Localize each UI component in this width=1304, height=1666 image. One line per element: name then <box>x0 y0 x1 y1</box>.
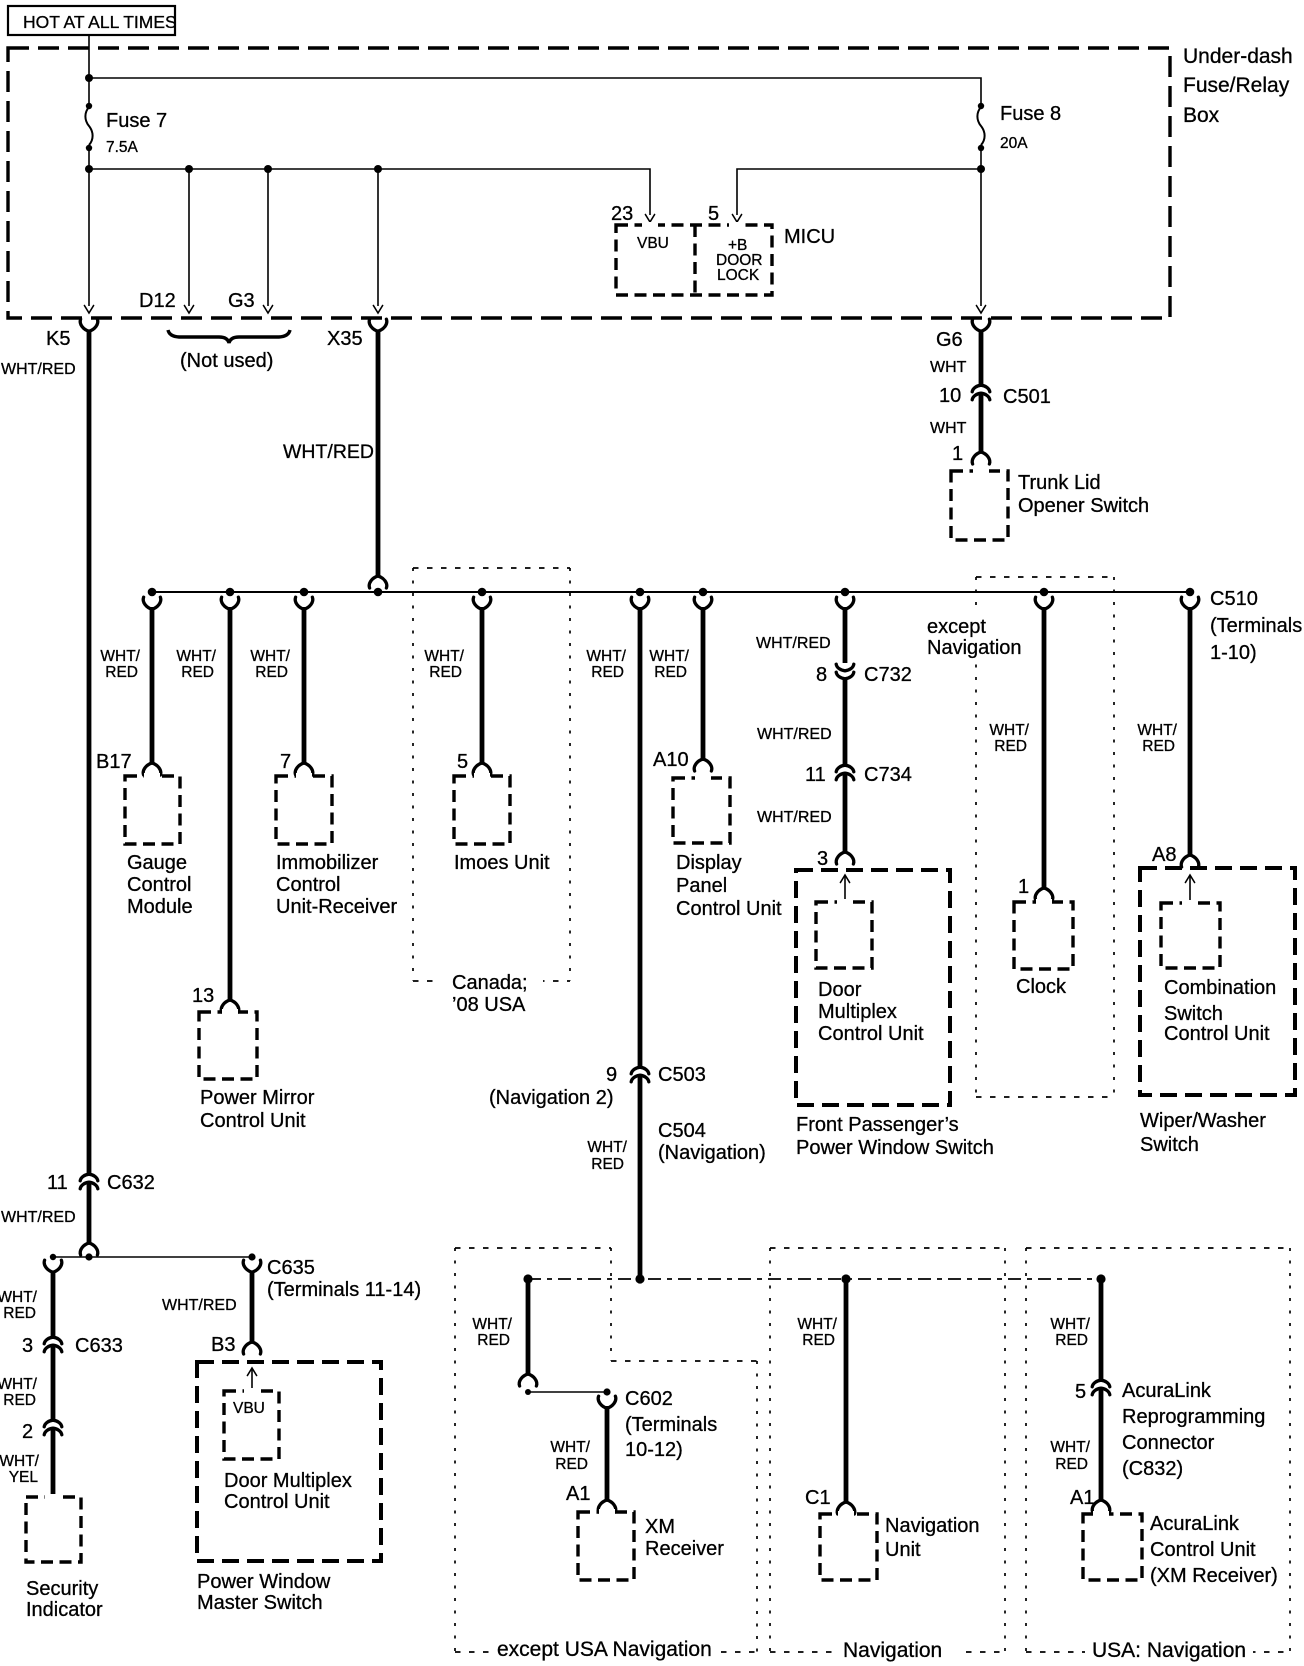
pin 5 arrow into MICU <box>732 215 741 223</box>
svg-text:20A: 20A <box>1000 135 1028 152</box>
svg-text:Under-dash: Under-dash <box>1183 45 1293 68</box>
svg-text:LOCK: LOCK <box>717 267 760 284</box>
connector A1 fork XM <box>598 1500 616 1512</box>
label Door Multiplex Control Unit master <box>224 1470 352 1513</box>
label WHT/RED wiper <box>1137 722 1177 755</box>
connector trunk switch pin fork <box>972 452 990 464</box>
svg-text:Fuse/Relay: Fuse/Relay <box>1183 74 1290 97</box>
node bus junction 304 <box>300 588 309 597</box>
svg-text:WHT/RED: WHT/RED <box>1 1209 76 1226</box>
svg-text:Combination: Combination <box>1164 977 1276 999</box>
branch 7 Immobilizer <box>295 597 313 775</box>
label WHT/RED XM <box>550 1439 590 1473</box>
Door Multiplex Control Unit inner box <box>816 902 872 968</box>
svg-text:Navigation: Navigation <box>885 1515 980 1537</box>
svg-text:1-10): 1-10) <box>1210 642 1257 664</box>
label 3 C633 <box>22 1335 123 1357</box>
svg-text:(Navigation): (Navigation) <box>658 1142 766 1164</box>
label 9 C503 <box>606 1064 706 1086</box>
node junction left 53 <box>50 1254 56 1260</box>
svg-text:WHT/: WHT/ <box>100 648 140 665</box>
pin VBU inner box <box>224 1391 279 1459</box>
svg-text:A10: A10 <box>653 749 689 771</box>
svg-text:23: 23 <box>611 203 633 225</box>
except USA Navigation option box <box>455 1248 757 1652</box>
label AcuraLink Control Unit (XM Receiver) <box>1150 1513 1278 1587</box>
svg-text:WHT/RED: WHT/RED <box>757 726 832 743</box>
svg-text:C732: C732 <box>864 664 912 686</box>
svg-text:Receiver: Receiver <box>645 1538 724 1560</box>
svg-text:Imoes Unit: Imoes Unit <box>454 852 550 874</box>
svg-text:C734: C734 <box>864 764 912 786</box>
svg-text:X35: X35 <box>327 328 363 350</box>
svg-text:C1: C1 <box>805 1487 831 1509</box>
branch 5 Imoes Unit <box>473 597 491 775</box>
connector C501 <box>972 385 990 400</box>
svg-text:C635: C635 <box>267 1257 315 1279</box>
wire link 1392 <box>528 1391 607 1393</box>
Power Window Master Switch box <box>197 1362 381 1561</box>
branch B3 power window master fork <box>243 1260 261 1272</box>
svg-text:5: 5 <box>708 203 719 225</box>
svg-text:Power Window Switch: Power Window Switch <box>796 1137 994 1159</box>
node junction 89 <box>85 1253 92 1260</box>
label WHT/RED acuralink lower <box>1050 1439 1090 1473</box>
svg-text:11: 11 <box>47 1172 68 1194</box>
node bus junction 845 <box>841 588 850 597</box>
svg-text:WHT/: WHT/ <box>1050 1316 1090 1333</box>
wire navigation branch <box>844 1279 849 1503</box>
svg-text:WHT/: WHT/ <box>0 1376 38 1393</box>
label Fuse 8 20A <box>1000 103 1061 152</box>
connector C632 <box>80 1174 98 1189</box>
svg-text:A1: A1 <box>566 1483 590 1505</box>
wire Fuse 8 output rail <box>737 148 981 306</box>
svg-text:RED: RED <box>555 1456 588 1473</box>
connector C1 fork <box>837 1502 855 1514</box>
wire X35 to bus <box>376 331 381 577</box>
svg-text:Wiper/Washer: Wiper/Washer <box>1140 1110 1266 1132</box>
svg-text:WHT/RED: WHT/RED <box>283 441 374 463</box>
Imoes Unit box <box>454 776 510 844</box>
branch front passenger window switch wire <box>836 597 854 663</box>
svg-text:AcuraLink: AcuraLink <box>1150 1513 1240 1535</box>
svg-text:USA: Navigation: USA: Navigation <box>1092 1639 1246 1662</box>
node bus junction 640 <box>636 588 645 597</box>
svg-text:Clock: Clock <box>1016 976 1067 998</box>
svg-text:5: 5 <box>457 751 468 773</box>
wire X35 drop arrow <box>373 169 382 313</box>
wire K5 drop arrow <box>84 169 93 313</box>
svg-text:Master Switch: Master Switch <box>197 1592 323 1614</box>
label WHT/RED 528 <box>472 1316 512 1349</box>
Combination Switch Control Unit inner box <box>1161 903 1220 968</box>
Immobilizer Control Unit-Receiver box <box>276 776 332 844</box>
svg-text:G6: G6 <box>936 329 963 351</box>
svg-text:10-12): 10-12) <box>625 1439 683 1461</box>
node bus junction C510 <box>1186 588 1195 597</box>
label C504 (Navigation) <box>658 1120 766 1164</box>
svg-text:RED: RED <box>3 1392 36 1409</box>
node bus junction 230 <box>226 588 235 597</box>
label Trunk Lid Opener Switch <box>1018 472 1149 517</box>
svg-text:(Terminals: (Terminals <box>1210 615 1302 637</box>
svg-text:Control Unit: Control Unit <box>224 1491 330 1513</box>
svg-text:Navigation: Navigation <box>843 1639 942 1662</box>
wire top feed rail to Fuse 8 <box>89 78 981 104</box>
svg-text:Fuse 8: Fuse 8 <box>1000 103 1061 125</box>
node junction 528 <box>523 1274 532 1283</box>
label Gauge Control Module <box>127 852 193 918</box>
connector C832 pin 5 <box>1092 1380 1110 1395</box>
svg-text:WHT/: WHT/ <box>472 1316 512 1333</box>
Navigation option box <box>770 1248 1005 1652</box>
svg-text:Switch: Switch <box>1140 1134 1199 1156</box>
svg-text:Reprogramming: Reprogramming <box>1122 1406 1265 1428</box>
fuse F7 <box>85 103 92 151</box>
label WHT/RED acuralink upper <box>1050 1316 1090 1349</box>
node supply junction <box>85 74 93 82</box>
label Navigation Unit <box>885 1515 980 1561</box>
svg-text:RED: RED <box>477 1332 510 1349</box>
label C602 (Terminals 10-12) <box>625 1388 717 1461</box>
svg-text:G3: G3 <box>228 290 255 312</box>
label Combination Switch Control Unit <box>1164 977 1276 1045</box>
svg-text:8: 8 <box>816 664 827 686</box>
node junction K5 feed <box>85 165 93 173</box>
svg-text:except: except <box>927 616 986 638</box>
wire acuralink branch upper <box>1099 1279 1104 1381</box>
svg-text:RED: RED <box>1055 1456 1088 1473</box>
node junction X35 feed <box>374 165 382 173</box>
svg-text:9: 9 <box>606 1064 617 1086</box>
wire pin 2 to security indicator <box>51 1428 56 1499</box>
connector C602 fork <box>598 1396 616 1408</box>
svg-text:WHT/: WHT/ <box>250 648 290 665</box>
connector C734 <box>836 765 854 780</box>
label 11 C632 <box>47 1172 155 1194</box>
svg-text:Control: Control <box>276 874 340 896</box>
svg-text:C504: C504 <box>658 1120 706 1142</box>
svg-text:RED: RED <box>1055 1332 1088 1349</box>
node junction G3 feed <box>264 165 272 173</box>
svg-text:Multiplex: Multiplex <box>818 1001 897 1023</box>
svg-text:RED: RED <box>3 1305 36 1322</box>
svg-text:WHT/RED: WHT/RED <box>757 809 832 826</box>
label Power Mirror Control Unit <box>200 1087 315 1132</box>
label 8 C732 <box>816 664 912 686</box>
Power Mirror Control Unit box <box>199 1012 257 1079</box>
label WHT/RED branch 230 <box>176 648 216 681</box>
wire entry notches <box>45 222 1198 1517</box>
Navigation Unit box <box>820 1514 877 1580</box>
svg-text:D12: D12 <box>139 290 176 312</box>
svg-text:VBU: VBU <box>637 235 669 252</box>
branch security indicator fork <box>44 1260 62 1272</box>
svg-text:Box: Box <box>1183 104 1220 127</box>
branch 13 Power Mirror Control Unit <box>221 597 239 1012</box>
svg-text:RED: RED <box>1142 738 1175 755</box>
svg-text:A1: A1 <box>1070 1487 1094 1509</box>
svg-text:B17: B17 <box>96 751 132 773</box>
svg-text:Connector: Connector <box>1122 1432 1215 1454</box>
svg-text:11: 11 <box>805 764 826 786</box>
wire Fuse 7 output rail <box>89 148 650 215</box>
svg-text:Control Unit: Control Unit <box>818 1023 924 1045</box>
label Navigation option <box>836 1636 961 1664</box>
svg-text:C602: C602 <box>625 1388 673 1410</box>
svg-text:WHT: WHT <box>930 359 967 376</box>
svg-text:WHT/RED: WHT/RED <box>162 1297 237 1314</box>
svg-text:1: 1 <box>1018 876 1029 898</box>
label WHT/RED clock <box>989 722 1029 755</box>
svg-text:RED: RED <box>255 664 288 681</box>
svg-text:WHT/: WHT/ <box>797 1316 837 1333</box>
branch 1 Clock <box>1035 597 1053 900</box>
label WHT/RED branch 703 <box>649 648 689 681</box>
wire G3 drop arrow <box>263 169 272 313</box>
svg-text:Control: Control <box>127 874 191 896</box>
svg-text:(Terminals: (Terminals <box>625 1414 717 1436</box>
svg-text:13: 13 <box>192 985 214 1007</box>
svg-text:Power Window: Power Window <box>197 1571 331 1593</box>
svg-text:WHT/: WHT/ <box>1050 1439 1090 1456</box>
svg-text:Control Unit: Control Unit <box>200 1110 306 1132</box>
connector C503 <box>631 1067 649 1082</box>
svg-text:7: 7 <box>280 751 291 773</box>
node bus junction 1044 <box>1040 588 1049 597</box>
label 11 C734 <box>805 764 912 786</box>
label WHT/RED branch 482 <box>424 648 464 681</box>
node junction 1101 <box>1096 1274 1105 1283</box>
svg-text:Switch: Switch <box>1164 1003 1223 1025</box>
brace Not used for D12 G3 <box>168 330 290 343</box>
svg-text:’08 USA: ’08 USA <box>452 994 526 1016</box>
node junction D12 feed <box>185 165 193 173</box>
Clock box <box>1014 902 1073 969</box>
svg-text:WHT/RED: WHT/RED <box>756 635 831 652</box>
label WHT/RED branch 152 <box>100 648 140 681</box>
label Under-dash Fuse/Relay Box <box>1183 45 1293 127</box>
wire C832 to acuralink unit <box>1099 1388 1104 1501</box>
XM Receiver box <box>578 1512 634 1580</box>
svg-text:Trunk Lid: Trunk Lid <box>1018 472 1101 494</box>
svg-text:(Not used): (Not used) <box>180 350 273 372</box>
svg-text:Module: Module <box>127 896 193 918</box>
wire C633 to pin 2 connector <box>51 1345 56 1421</box>
label except Navigation <box>924 610 1030 660</box>
Canada '08 USA option box <box>413 568 570 981</box>
label Front Passenger's Power Window Switch <box>796 1114 994 1159</box>
svg-text:RED: RED <box>654 664 687 681</box>
svg-text:C633: C633 <box>75 1335 123 1357</box>
svg-text:Indicator: Indicator <box>26 1599 103 1621</box>
wire C632 down to junction <box>87 1182 92 1244</box>
except Navigation option box <box>976 577 1114 1097</box>
svg-text:(Navigation 2): (Navigation 2) <box>489 1087 614 1109</box>
svg-text:7.5A: 7.5A <box>106 139 139 156</box>
svg-text:Front Passenger’s: Front Passenger’s <box>796 1114 959 1136</box>
svg-text:Door: Door <box>818 979 862 1001</box>
pin +B DOOR LOCK of MICU <box>716 237 763 284</box>
svg-text:WHT/: WHT/ <box>424 648 464 665</box>
svg-text:WHT/: WHT/ <box>176 648 216 665</box>
svg-text:RED: RED <box>802 1332 835 1349</box>
wire to C633 <box>51 1271 56 1338</box>
label Display Panel Control Unit <box>676 852 782 920</box>
svg-text:A8: A8 <box>1152 844 1176 866</box>
MICU unit box <box>616 225 772 295</box>
svg-text:WHT/: WHT/ <box>0 1289 38 1306</box>
label AcuraLink Reprogramming Connector (C832) <box>1122 1380 1265 1480</box>
Display Panel Control Unit box <box>673 778 730 843</box>
svg-text:K5: K5 <box>46 328 70 350</box>
connector C633 <box>44 1337 62 1352</box>
svg-text:RED: RED <box>591 664 624 681</box>
node bus junction X35 <box>374 588 383 597</box>
label USA: Navigation <box>1085 1636 1253 1664</box>
wire to B3 <box>250 1271 255 1343</box>
svg-text:B3: B3 <box>211 1334 235 1356</box>
label Door Multiplex Control Unit <box>818 979 924 1045</box>
svg-text:2: 2 <box>22 1421 33 1443</box>
label WHT/YEL <box>0 1453 40 1486</box>
label Immobilizer Control Unit-Receiver <box>276 852 397 918</box>
svg-text:Gauge: Gauge <box>127 852 187 874</box>
label Canada '08 USA <box>438 964 543 1016</box>
node bus junction 152 <box>148 588 157 597</box>
svg-text:AcuraLink: AcuraLink <box>1122 1380 1212 1402</box>
label WHT/RED security upper <box>0 1289 38 1322</box>
svg-text:Opener Switch: Opener Switch <box>1018 495 1149 517</box>
connector pin 2 <box>44 1420 62 1435</box>
svg-text:RED: RED <box>429 664 462 681</box>
connector A1 fork acuralink <box>1092 1500 1110 1512</box>
svg-text:C632: C632 <box>107 1172 155 1194</box>
wire C501 to trunk switch <box>979 393 984 452</box>
Trunk Lid Opener Switch box <box>951 471 1008 540</box>
svg-text:VBU: VBU <box>233 1400 265 1417</box>
USA Navigation option box <box>1026 1248 1290 1652</box>
svg-text:C503: C503 <box>658 1064 706 1086</box>
svg-text:Fuse 7: Fuse 7 <box>106 110 167 132</box>
svg-text:WHT/: WHT/ <box>649 648 689 665</box>
AcuraLink Control Unit box <box>1083 1514 1142 1580</box>
branch B17 Gauge Control Module <box>143 597 161 775</box>
svg-text:C501: C501 <box>1003 386 1051 408</box>
svg-text:3: 3 <box>817 848 828 870</box>
label 10 C501 <box>939 385 1051 408</box>
arrow into VBU <box>247 1368 256 1391</box>
svg-text:(C832): (C832) <box>1122 1458 1183 1480</box>
label C510 (Terminals 1-10) <box>1210 588 1302 664</box>
wire C732 to C734 <box>843 679 848 766</box>
label Power Window Master Switch <box>197 1571 331 1614</box>
wire main bus <box>152 591 1190 593</box>
connector B3 fork <box>243 1342 261 1354</box>
svg-text:RED: RED <box>105 664 138 681</box>
connector 528 end fork <box>519 1374 537 1386</box>
connector K5 terminal <box>80 319 98 331</box>
label C635 (Terminals 11-14) <box>267 1257 421 1301</box>
svg-text:WHT/: WHT/ <box>586 648 626 665</box>
svg-text:Immobilizer: Immobilizer <box>276 852 379 874</box>
connector X35 terminal <box>369 319 387 331</box>
svg-text:1: 1 <box>952 443 963 465</box>
node bus junction 482 <box>478 588 487 597</box>
svg-text:Power Mirror: Power Mirror <box>200 1087 315 1109</box>
svg-text:WHT/: WHT/ <box>0 1453 40 1470</box>
svg-text:10: 10 <box>939 385 961 407</box>
Under-dash Fuse/Relay Box <box>8 48 1170 318</box>
branch C503 C504 wire upper <box>631 597 649 1068</box>
node link left <box>525 1389 531 1395</box>
connector switch pin 3 fork <box>836 852 854 864</box>
svg-text:WHT/: WHT/ <box>1137 722 1177 739</box>
node junction 846 <box>841 1274 850 1283</box>
wire options dashed rail 1279 <box>528 1278 1102 1280</box>
Gauge Control Module box <box>125 776 180 844</box>
svg-text:YEL: YEL <box>9 1469 39 1486</box>
svg-text:XM: XM <box>645 1516 675 1538</box>
fuse F8 <box>977 103 984 151</box>
label except USA Navigation <box>490 1634 720 1662</box>
Front Passenger's Power Window Switch box <box>796 870 950 1105</box>
connector G6 terminal <box>972 319 990 331</box>
label WHT/RED C504 <box>587 1139 627 1173</box>
wire C602 to XM receiver <box>605 1406 610 1501</box>
svg-text:Canada;: Canada; <box>452 972 528 994</box>
arrow into combination switch unit <box>1185 875 1194 903</box>
wire G6 drop arrow <box>976 306 985 314</box>
svg-text:except USA Navigation: except USA Navigation <box>497 1638 712 1661</box>
svg-text:Panel: Panel <box>676 875 727 897</box>
label Fuse 7 7.5A <box>106 110 167 156</box>
svg-text:Control Unit: Control Unit <box>1164 1023 1270 1045</box>
arrow into door multiplex unit <box>840 875 849 903</box>
node link right C602 <box>603 1388 610 1395</box>
svg-text:MICU: MICU <box>784 226 835 248</box>
svg-text:Unit-Receiver: Unit-Receiver <box>276 896 397 918</box>
label XM Receiver <box>645 1516 724 1560</box>
svg-text:Unit: Unit <box>885 1539 921 1561</box>
wire from HOT supply down to Fuse 7 <box>88 35 90 104</box>
Security Indicator box <box>26 1497 81 1562</box>
svg-text:(Terminals 11-14): (Terminals 11-14) <box>267 1279 421 1301</box>
svg-text:Navigation: Navigation <box>927 637 1022 659</box>
Wiper/Washer Switch box <box>1140 868 1295 1095</box>
svg-text:C510: C510 <box>1210 588 1258 610</box>
node junction C635 <box>248 1253 255 1260</box>
branch A8 wiper washer <box>1181 597 1199 867</box>
label Wiper/Washer Switch <box>1140 1110 1266 1156</box>
wire C734 to switch <box>843 773 848 853</box>
connector K5 wire end fork <box>80 1243 98 1255</box>
node junction 638 <box>635 1274 644 1283</box>
svg-text:5: 5 <box>1075 1381 1086 1403</box>
wire D12 drop arrow <box>184 169 193 313</box>
svg-text:(XM Receiver): (XM Receiver) <box>1150 1565 1278 1587</box>
wire junction rail 1257 <box>53 1256 252 1258</box>
node junction Fuse 8 output <box>977 165 985 173</box>
label WHT/RED nav <box>797 1316 837 1349</box>
svg-text:Display: Display <box>676 852 742 874</box>
svg-text:RED: RED <box>181 664 214 681</box>
svg-text:3: 3 <box>22 1335 33 1357</box>
svg-text:Control Unit: Control Unit <box>676 898 782 920</box>
svg-text:HOT AT ALL TIMES: HOT AT ALL TIMES <box>23 12 177 32</box>
connector X35 bus end fork <box>369 576 387 588</box>
